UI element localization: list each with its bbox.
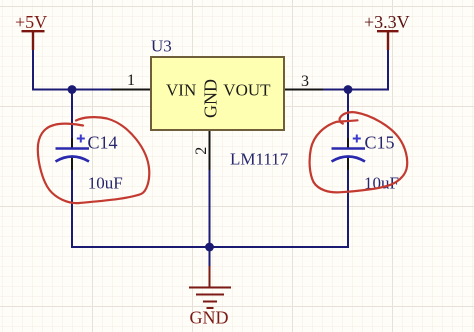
svg-text:GND: GND: [201, 79, 221, 118]
wire pin2 to rail: [209, 168, 211, 247]
svg-text:3: 3: [301, 73, 309, 90]
capacitor C14 plus sign: [77, 135, 85, 143]
wire C15 top branch: [347, 90, 349, 149]
regulator U3 body rectangle: [151, 57, 284, 130]
wire C15 bottom branch: [347, 157, 349, 248]
pin 3 of U3: [285, 89, 323, 91]
wire pin3 to +3.3V corner: [322, 49, 388, 90]
wire +5V branch down and top-left rail to pin1: [33, 49, 111, 90]
capacitor C15 pin segments (black): [347, 138, 349, 148]
capacitor C15 plates: [332, 147, 366, 150]
wire bottom ground rail: [72, 247, 348, 248]
pin 2 of U3: [209, 131, 211, 170]
svg-text:C15: C15: [365, 133, 395, 153]
svg-text:10uF: 10uF: [88, 174, 123, 193]
svg-text:C14: C14: [88, 133, 118, 153]
wire C14 bottom branch: [71, 157, 73, 248]
capacitor C15 plus sign: [353, 135, 361, 143]
junction dot left: [68, 85, 77, 94]
capacitor C14 plates: [56, 147, 90, 150]
svg-text:GND: GND: [190, 308, 229, 328]
svg-text:2: 2: [193, 147, 210, 155]
svg-text:1: 1: [127, 72, 135, 89]
svg-text:U3: U3: [151, 37, 172, 56]
junction dot right: [344, 85, 353, 94]
capacitor C14 pin segments (black): [71, 138, 73, 148]
power port +5V: [22, 31, 45, 50]
svg-text:+5V: +5V: [15, 12, 47, 32]
pin 1 of U3: [111, 89, 150, 91]
wire C14 top branch: [71, 90, 73, 149]
ground symbol: [189, 266, 231, 308]
wire GND stem upper: [209, 247, 211, 267]
svg-text:LM1117: LM1117: [230, 150, 289, 169]
red annotation circle around C15: [310, 112, 408, 192]
svg-text:VIN: VIN: [166, 81, 196, 100]
red annotation circle around C14: [38, 117, 149, 203]
svg-text:VOUT: VOUT: [223, 81, 271, 100]
power port +3.3V: [377, 31, 399, 50]
svg-text:+3.3V: +3.3V: [364, 12, 410, 32]
junction dot bottom: [205, 243, 214, 252]
